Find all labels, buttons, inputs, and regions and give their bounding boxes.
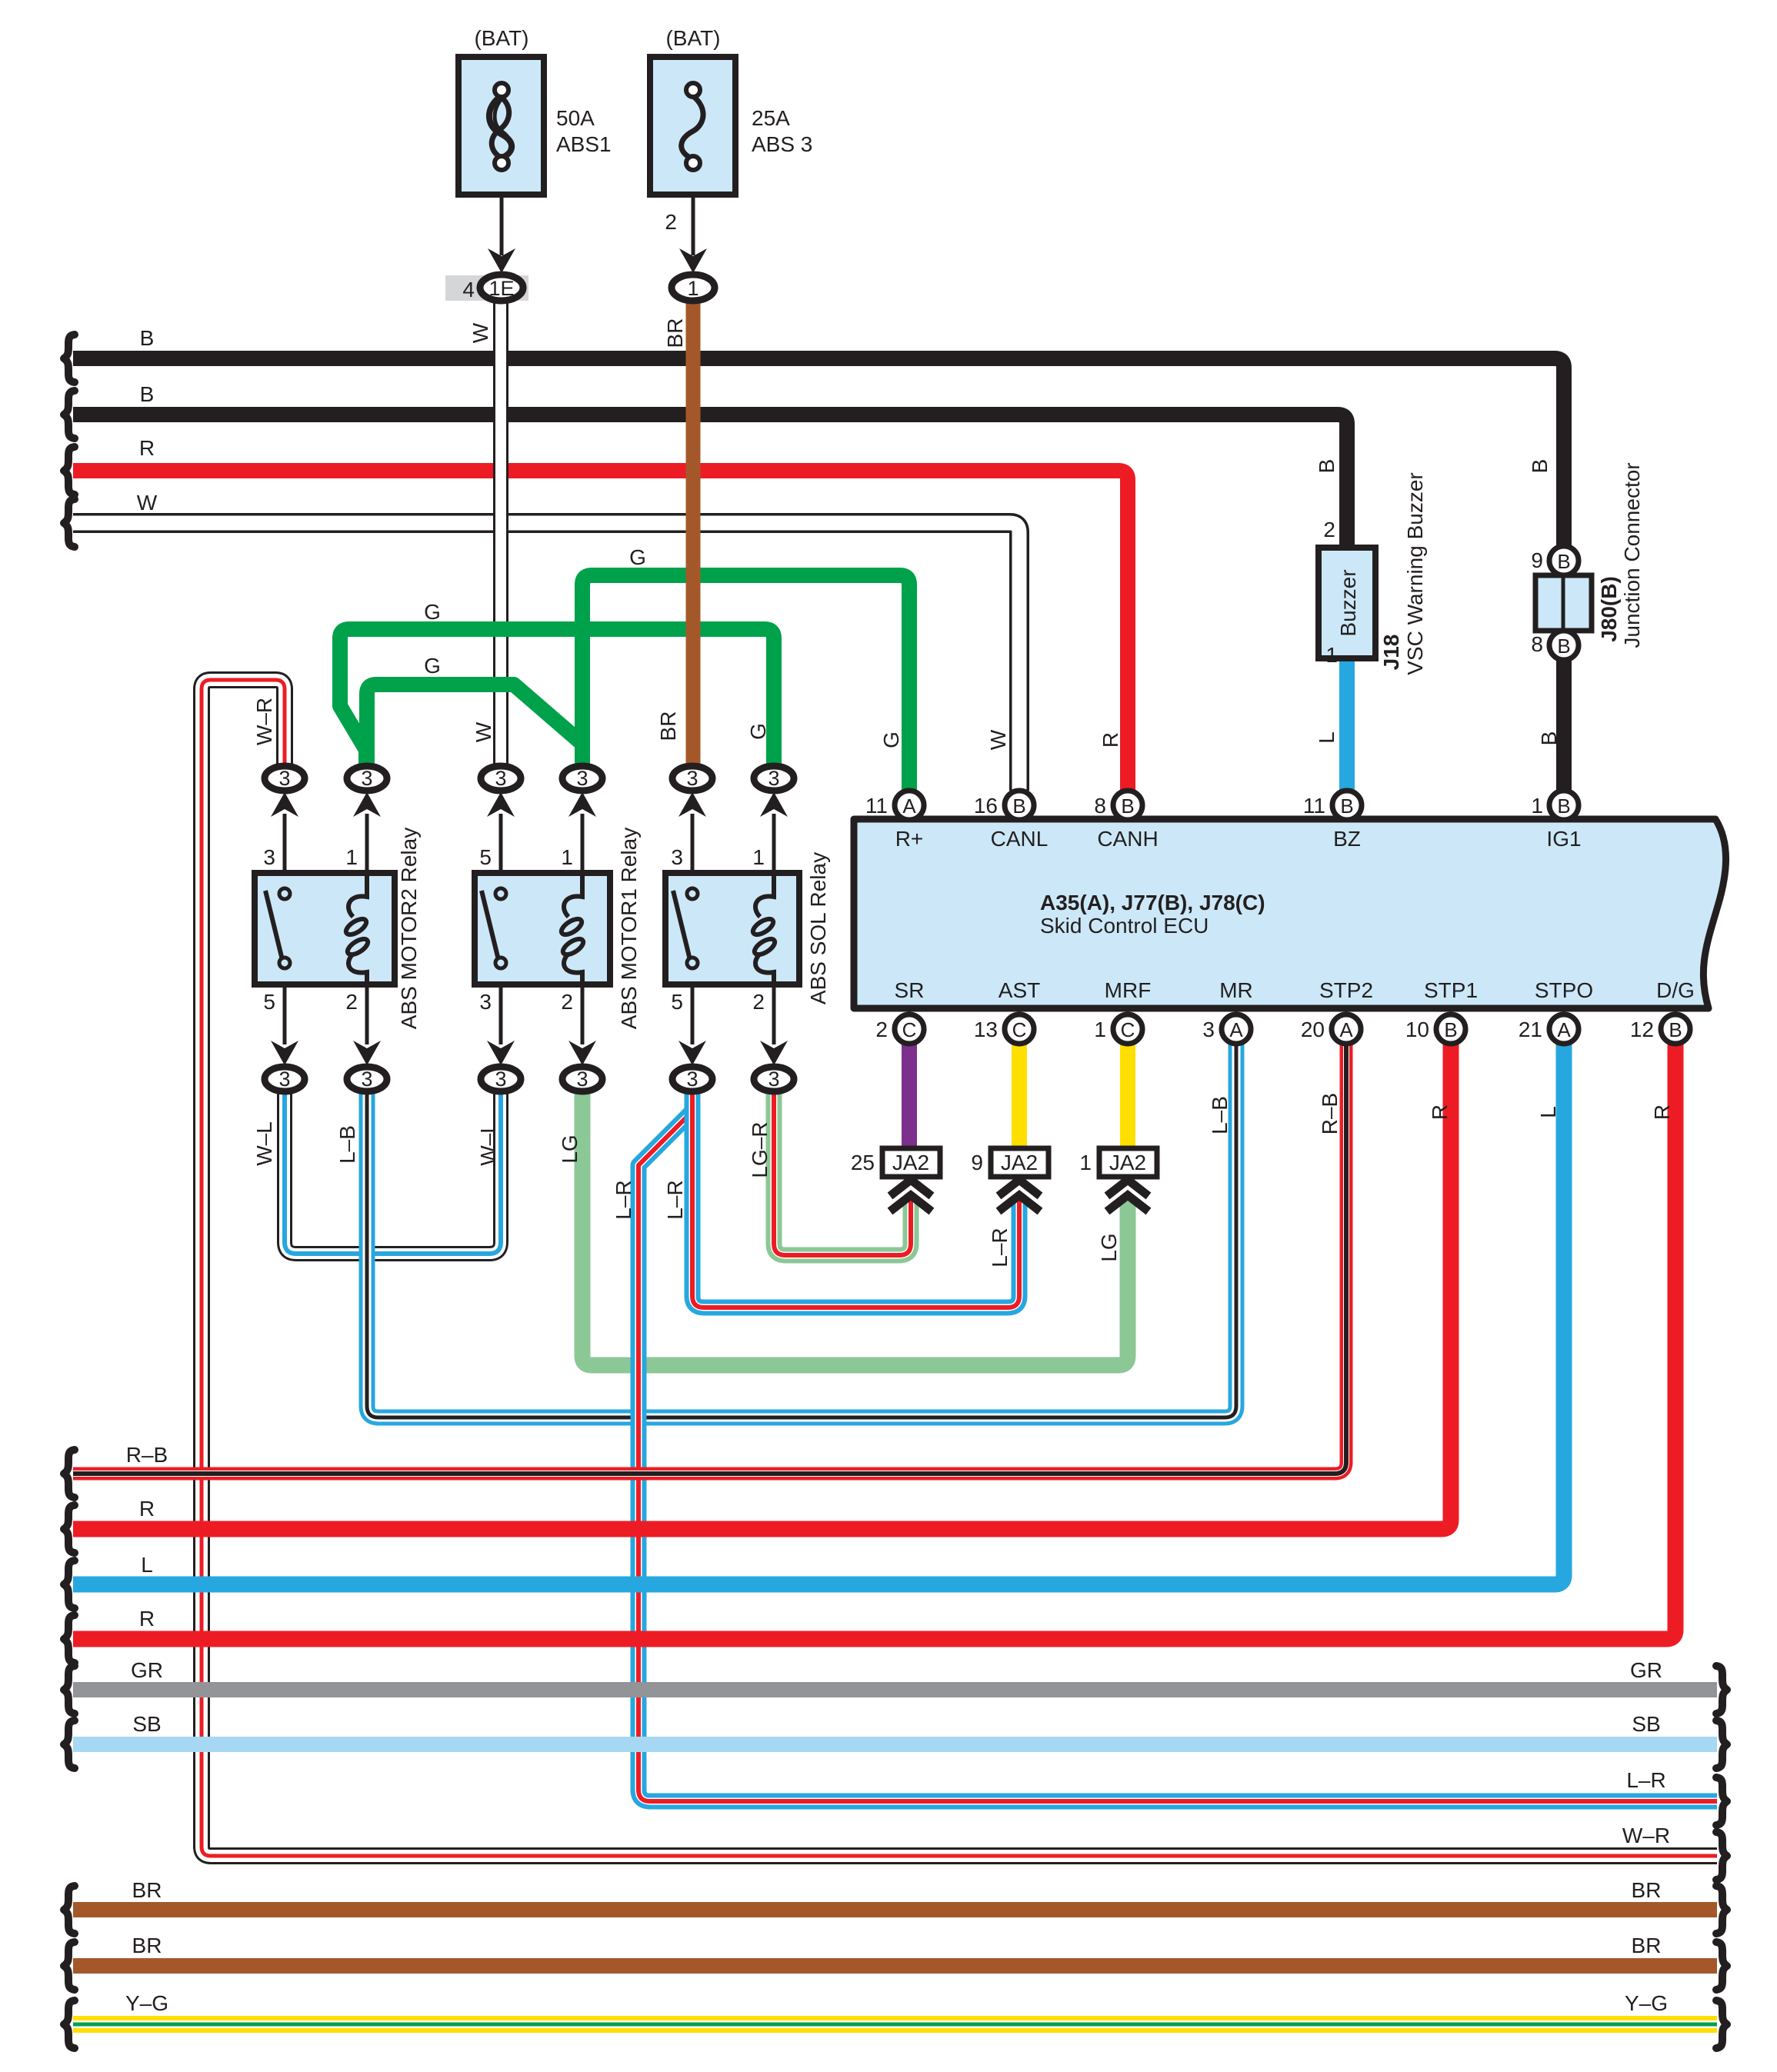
svg-text:B: B — [1340, 794, 1353, 818]
svg-text:A35(A), J77(B), J78(C): A35(A), J77(B), J78(C) — [1040, 891, 1265, 914]
svg-text:GR: GR — [131, 1658, 163, 1682]
svg-text:W: W — [468, 322, 492, 343]
wire L (ECU STPO pin 21A to left brace) — [73, 1044, 1564, 1584]
wire Y (ECU MRF pin 1C to JA2 pin 1) — [1120, 1044, 1135, 1148]
svg-text:1: 1 — [687, 277, 698, 300]
svg-text:R: R — [1428, 1104, 1452, 1120]
wire B bus 2 (to Buzzer pin 2) — [73, 415, 1347, 549]
wire G upper (relay pin 1 to ECU R+ pin 11A) — [582, 575, 909, 791]
svg-text:L: L — [1315, 731, 1339, 744]
svg-text:1: 1 — [1079, 1151, 1092, 1174]
wire W-L U-link (relay1 pin 5 to relay2 pin 3) — [285, 1093, 501, 1254]
svg-text:W–L: W–L — [252, 1121, 276, 1166]
grey band connector 1E — [445, 275, 528, 301]
svg-text:5: 5 — [263, 990, 275, 1014]
svg-text:BR: BR — [663, 318, 687, 348]
svg-text:G: G — [746, 723, 770, 740]
svg-text:ABS 3: ABS 3 — [752, 132, 812, 156]
svg-text:9: 9 — [1531, 548, 1543, 572]
svg-text:J18: J18 — [1379, 635, 1403, 671]
svg-text:3: 3 — [479, 990, 492, 1014]
arrow into connector 1 — [679, 248, 707, 273]
svg-text:B: B — [1444, 1018, 1457, 1041]
wire GR bus — [73, 1682, 1717, 1697]
svg-text:W: W — [986, 729, 1010, 750]
wire G lower (ABS MOTOR2 relay pin 1 to ABS MOTOR1 relay pin 1) — [367, 685, 582, 765]
svg-text:MR: MR — [1219, 978, 1253, 1002]
svg-text:Junction Connector: Junction Connector — [1620, 462, 1644, 648]
svg-text:3: 3 — [1202, 1018, 1215, 1041]
relay ABS SOL — [665, 873, 799, 984]
svg-text:C: C — [1012, 1018, 1027, 1041]
wire G middle (ABS SOL relay pin 1 to ABS MOTOR2 relay pin 1) — [340, 629, 774, 765]
svg-text:G: G — [424, 654, 441, 678]
wire R bus (to ECU CANH pin 8B) — [73, 471, 1128, 791]
wire SB bus — [73, 1737, 1717, 1752]
svg-text:1: 1 — [1094, 1018, 1106, 1041]
svg-text:1: 1 — [1325, 643, 1338, 667]
svg-text:C: C — [1121, 1018, 1135, 1041]
svg-text:B: B — [1121, 794, 1134, 818]
svg-text:MRF: MRF — [1105, 978, 1152, 1002]
wire W-R (ABS MOTOR2 relay pin 3 loop to right brace) — [202, 680, 1717, 1856]
wire W bus (to ECU CANL pin 16B) — [73, 523, 1019, 791]
svg-text:J80(B): J80(B) — [1597, 576, 1621, 642]
svg-text:B: B — [140, 382, 155, 406]
svg-text:11: 11 — [865, 794, 888, 818]
wire BR bus 2 — [73, 1958, 1717, 1974]
svg-text:VSC Warning Buzzer: VSC Warning Buzzer — [1403, 472, 1427, 675]
wire Y (ECU AST pin 13C to JA2 pin 9) — [1012, 1044, 1027, 1148]
svg-text:D/G: D/G — [1656, 978, 1695, 1002]
svg-text:13: 13 — [974, 1018, 998, 1041]
svg-text:2: 2 — [665, 210, 677, 234]
svg-text:L–R: L–R — [988, 1228, 1012, 1267]
svg-text:Skid Control ECU: Skid Control ECU — [1040, 914, 1209, 938]
connector 1E oval — [480, 275, 523, 301]
svg-text:2: 2 — [561, 990, 573, 1014]
svg-text:L–R: L–R — [612, 1180, 635, 1219]
svg-text:SB: SB — [132, 1712, 161, 1736]
svg-text:BZ: BZ — [1333, 827, 1361, 851]
junction connector J80(B) — [1535, 546, 1592, 660]
wire L-R branch (to bottom L-R row and right brace) — [638, 1111, 1717, 1801]
svg-text:21: 21 — [1519, 1018, 1542, 1041]
svg-text:C: C — [902, 1018, 917, 1041]
svg-text:L–B: L–B — [1208, 1096, 1232, 1134]
bottom ovals 3 — [265, 1067, 305, 1091]
svg-text:LG: LG — [1097, 1233, 1121, 1261]
svg-text:L–R: L–R — [1626, 1768, 1665, 1792]
svg-text:10: 10 — [1405, 1018, 1429, 1041]
svg-text:25: 25 — [851, 1151, 875, 1174]
svg-text:R: R — [139, 1607, 155, 1631]
svg-text:W–R: W–R — [252, 698, 276, 745]
svg-text:B: B — [1557, 794, 1570, 818]
svg-text:G: G — [629, 545, 646, 569]
svg-text:1E: 1E — [488, 277, 514, 300]
svg-text:Y–G: Y–G — [1625, 1991, 1668, 2015]
svg-text:B: B — [140, 326, 155, 350]
svg-text:A: A — [1557, 1018, 1571, 1041]
svg-text:5: 5 — [671, 990, 683, 1014]
svg-text:16: 16 — [974, 794, 998, 818]
svg-text:A: A — [1229, 1018, 1243, 1041]
svg-text:50A: 50A — [556, 106, 595, 130]
wire BR bus 1 — [73, 1902, 1717, 1917]
wire L (Buzzer pin 1 to ECU BZ pin 11B) — [1339, 657, 1355, 791]
svg-text:W: W — [472, 721, 495, 742]
svg-text:L: L — [1536, 1106, 1560, 1118]
svg-text:BR: BR — [656, 711, 680, 741]
svg-text:ABS MOTOR2 Relay: ABS MOTOR2 Relay — [397, 828, 421, 1029]
svg-text:R+: R+ — [895, 827, 924, 851]
wire BR vertical (fuse ABS 3 to ABS SOL relay pin 3) — [686, 303, 701, 765]
svg-text:STP2: STP2 — [1319, 978, 1373, 1002]
svg-text:B: B — [1012, 794, 1025, 818]
svg-text:B: B — [1315, 459, 1339, 474]
arrows into top ovals — [271, 792, 788, 817]
svg-text:1: 1 — [345, 845, 358, 869]
svg-text:12: 12 — [1630, 1018, 1654, 1041]
svg-text:W–R: W–R — [1622, 1824, 1670, 1847]
svg-text:Y–G: Y–G — [125, 1991, 168, 2015]
svg-text:B: B — [1528, 459, 1552, 474]
relay ABS MOTOR2 — [255, 873, 395, 984]
top ovals 3 — [265, 766, 305, 791]
relay ABS MOTOR1 — [475, 873, 610, 984]
svg-text:2: 2 — [752, 990, 765, 1014]
svg-text:(BAT): (BAT) — [665, 26, 720, 50]
svg-text:SR: SR — [895, 978, 925, 1002]
Buzzer box J18 — [1319, 548, 1375, 658]
wire L-R main (ABS SOL relay pin 5 to JA2 pin 9) — [692, 1093, 1019, 1307]
connector JA2 pin 1 — [1099, 1148, 1157, 1211]
svg-text:A: A — [1339, 1018, 1353, 1041]
svg-text:4: 4 — [462, 278, 475, 301]
svg-text:20: 20 — [1301, 1018, 1325, 1041]
svg-text:L–R: L–R — [663, 1180, 687, 1219]
right braces — [1716, 1666, 1727, 2048]
svg-text:ABS1: ABS1 — [556, 132, 612, 156]
svg-text:3: 3 — [263, 845, 275, 869]
arrows into bottom ovals — [271, 1041, 788, 1065]
ECU top pin circles — [895, 791, 1579, 820]
wire fuse ABS 3 lead — [692, 195, 695, 255]
svg-text:L: L — [141, 1553, 153, 1577]
svg-text:B: B — [1669, 1018, 1682, 1041]
svg-text:(BAT): (BAT) — [474, 26, 528, 50]
svg-text:8: 8 — [1094, 794, 1106, 818]
svg-text:2: 2 — [1323, 518, 1335, 541]
wire R-B (ECU STP2 pin 20A to left brace) — [73, 1044, 1346, 1474]
svg-text:R–B: R–B — [1318, 1093, 1342, 1134]
svg-text:A: A — [902, 794, 916, 818]
wire R (ECU D/G pin 12B to left brace) — [73, 1044, 1675, 1639]
svg-text:25A: 25A — [752, 106, 790, 130]
svg-text:R: R — [139, 1497, 155, 1521]
wire V (ECU SR pin 2C to JA2 pin 25) — [902, 1044, 917, 1148]
svg-text:R: R — [139, 436, 155, 460]
svg-text:BR: BR — [132, 1878, 162, 1902]
connector JA2 pin 9 — [991, 1148, 1049, 1211]
svg-text:LG–R: LG–R — [748, 1121, 772, 1178]
svg-text:LG: LG — [558, 1134, 582, 1163]
svg-text:JA2: JA2 — [1001, 1151, 1038, 1174]
connector JA2 pin 25 — [882, 1148, 940, 1211]
wire W vertical (fuse ABS1 to ABS MOTOR1 relay pin 5) — [500, 303, 502, 765]
wire B bus 1 (to J80 pin 9) — [73, 358, 1564, 548]
svg-text:JA2: JA2 — [1109, 1151, 1146, 1174]
svg-text:1: 1 — [1531, 794, 1543, 818]
svg-text:SB: SB — [1632, 1712, 1660, 1736]
svg-text:2: 2 — [875, 1018, 888, 1041]
svg-text:G: G — [424, 600, 441, 624]
relay pin wires bottom row — [285, 984, 774, 1044]
svg-text:W–L: W–L — [476, 1121, 500, 1166]
fuse 25A ABS 3 — [650, 57, 735, 195]
svg-text:CANL: CANL — [991, 827, 1049, 851]
svg-text:JA2: JA2 — [892, 1151, 929, 1174]
wire L-B (relay1 pin 2 to ECU MR pin 3A) — [367, 1044, 1236, 1417]
svg-text:L–B: L–B — [335, 1125, 359, 1164]
svg-text:ABS SOL Relay: ABS SOL Relay — [806, 852, 830, 1004]
svg-text:STP1: STP1 — [1424, 978, 1478, 1002]
svg-text:G: G — [879, 731, 903, 748]
arrow into connector 1E — [488, 248, 515, 273]
svg-text:R: R — [1650, 1104, 1674, 1120]
svg-text:B: B — [1557, 550, 1570, 573]
left braces — [64, 335, 75, 2048]
wire fuse ABS1 lead — [500, 195, 504, 255]
svg-text:BR: BR — [1632, 1934, 1662, 1957]
svg-text:W: W — [137, 491, 158, 515]
svg-text:CANH: CANH — [1097, 827, 1158, 851]
svg-text:R: R — [1099, 732, 1122, 748]
svg-text:3: 3 — [671, 845, 683, 869]
ECU bottom pin circles — [895, 1014, 1690, 1044]
svg-text:11: 11 — [1303, 794, 1325, 818]
wire R (ECU STP1 pin 10B to left brace) — [73, 1044, 1451, 1529]
svg-text:2: 2 — [345, 990, 358, 1014]
Skid Control ECU box — [854, 819, 1726, 1008]
wire LG (relay2 pin 2 to JA2 pin 1) — [582, 1093, 1128, 1365]
svg-text:1: 1 — [752, 845, 765, 869]
svg-text:IG1: IG1 — [1546, 827, 1581, 851]
svg-text:ABS MOTOR1 Relay: ABS MOTOR1 Relay — [617, 828, 641, 1029]
svg-text:STPO: STPO — [1535, 978, 1593, 1002]
wire LG-R (ABS SOL relay pin 2 to JA2 pin 25) — [774, 1093, 911, 1255]
svg-text:AST: AST — [999, 978, 1040, 1002]
svg-text:B: B — [1557, 635, 1570, 658]
connector 1 oval — [672, 275, 715, 301]
svg-text:B: B — [1537, 731, 1561, 746]
wire Y-G bus — [73, 2024, 1717, 2025]
svg-text:8: 8 — [1531, 632, 1543, 656]
wire B (J80 pin 8 to ECU IG1 pin 1B) — [1556, 658, 1572, 791]
svg-text:BR: BR — [1632, 1878, 1662, 1902]
fuse 50A ABS1 — [458, 57, 544, 195]
svg-text:5: 5 — [479, 845, 492, 869]
svg-text:R–B: R–B — [126, 1443, 168, 1467]
svg-text:Buzzer: Buzzer — [1336, 569, 1360, 636]
svg-text:BR: BR — [132, 1934, 162, 1957]
svg-text:1: 1 — [561, 845, 573, 869]
svg-text:GR: GR — [1630, 1658, 1662, 1682]
relay pin wires top row — [285, 814, 774, 873]
svg-text:9: 9 — [971, 1151, 983, 1174]
